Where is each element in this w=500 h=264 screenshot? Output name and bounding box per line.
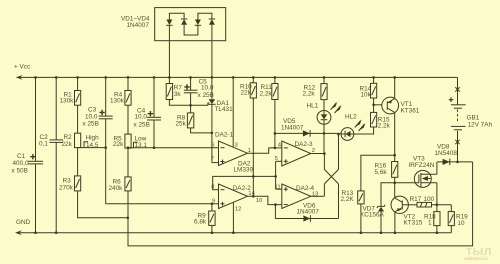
node dot VD8line-battery bbox=[456, 161, 459, 164]
svg-text:22k: 22k bbox=[241, 90, 252, 97]
svg-text:2,2k: 2,2k bbox=[260, 91, 273, 98]
wire VD6 riser from pin10 line bbox=[274, 205, 276, 219]
svg-text:2: 2 bbox=[312, 148, 315, 154]
node dot HL1-VD5line bbox=[323, 132, 326, 135]
pin 3 Vcc wire DA2-1 bbox=[232, 77, 234, 146]
svg-text:1N4007: 1N4007 bbox=[127, 22, 150, 29]
node dot D1col-Vcc bbox=[168, 76, 171, 79]
svg-text:7: 7 bbox=[211, 156, 214, 162]
svg-text:GND: GND bbox=[16, 219, 31, 226]
node dot R10-latchline bbox=[252, 175, 255, 178]
svg-text:R17: R17 bbox=[410, 196, 422, 203]
node dot R8line-TL431col bbox=[211, 132, 214, 135]
wire HL1 down to VD5 line bbox=[323, 124, 325, 153]
wire bridge top jumper D3-D4 bbox=[198, 12, 212, 15]
node dot High-C3 bbox=[104, 146, 107, 149]
svg-text:130k: 130k bbox=[60, 98, 75, 105]
node dot VD5line-crosscol bbox=[337, 133, 340, 136]
wire D4 output down to Vcc bus bbox=[211, 30, 213, 77]
node dot R11-pin4line bbox=[274, 147, 277, 150]
svg-text:x 25B: x 25B bbox=[198, 92, 214, 99]
node dot R11-Vcc bbox=[274, 76, 277, 79]
wire pin5 stub bbox=[276, 160, 282, 162]
resistor R11 bbox=[260, 77, 279, 99]
capacitor C5 bbox=[184, 77, 214, 105]
node dot C2-GND bbox=[55, 231, 58, 234]
node dot R11-VD5line bbox=[274, 132, 277, 135]
node dot R18-GND bbox=[436, 231, 439, 234]
svg-text:R2: R2 bbox=[64, 134, 73, 141]
node dot C3-Vcc bbox=[104, 76, 107, 79]
svg-text:High: High bbox=[86, 135, 100, 142]
resistor R1 bbox=[60, 77, 81, 105]
resistor R8 bbox=[176, 105, 194, 128]
diode VD4 bbox=[209, 14, 215, 30]
node dot R10-Vcc bbox=[252, 76, 255, 79]
resistor R15 bbox=[371, 112, 391, 129]
node dot R13-GND bbox=[360, 231, 363, 234]
node dot R14-R15-base bbox=[372, 104, 375, 107]
svg-text:10: 10 bbox=[256, 198, 263, 204]
node dot R9-GND bbox=[211, 231, 214, 234]
wire D4 column through TL431 down to pin7 corner bbox=[211, 77, 213, 96]
wire VT3 source down to sense node bbox=[436, 183, 438, 212]
svg-text:100: 100 bbox=[424, 196, 435, 203]
svg-text:1N5408: 1N5408 bbox=[435, 150, 458, 157]
node dot D4col-Vcc bbox=[211, 76, 214, 79]
svg-text:2,2K: 2,2K bbox=[341, 196, 355, 203]
resistor R19 bbox=[448, 205, 468, 233]
node dot source-R17-R18-R19 bbox=[436, 204, 439, 207]
svg-text:11: 11 bbox=[275, 184, 281, 190]
wire R12 to HL1 bbox=[323, 100, 325, 111]
pin 12 wire to GND bbox=[232, 202, 234, 232]
wire DA2-2 output to DA2-4 pin10 bbox=[248, 196, 282, 204]
node dot VT1emitter-Vcc bbox=[393, 76, 396, 79]
comparator DA2-3 bbox=[282, 141, 311, 166]
node dot C5-refnode bbox=[189, 104, 192, 107]
comparator DA2-2 bbox=[219, 184, 248, 209]
wire cross diagonal A bbox=[324, 169, 338, 184]
resistor R16 bbox=[375, 155, 398, 177]
wire R7 bottom to ref node bbox=[169, 100, 208, 106]
svg-text:radiostroi.ru: radiostroi.ru bbox=[464, 256, 488, 261]
resistor R17 bbox=[408, 196, 451, 207]
pin 8 wire up to latch line bbox=[213, 176, 276, 189]
wire R1 to R2 bbox=[77, 105, 79, 133]
svg-text:DA2-3: DA2-3 bbox=[295, 141, 314, 148]
wire gate line VD7 corner to VT3 gate bbox=[381, 183, 414, 206]
svg-text:25k: 25k bbox=[176, 120, 187, 127]
diode VD1 bbox=[166, 14, 172, 30]
wire R3 bottom to R6 column bbox=[78, 191, 128, 218]
svg-text:5,6k: 5,6k bbox=[375, 169, 388, 176]
svg-text:10,0: 10,0 bbox=[135, 114, 148, 121]
wire cross left column upper (DA2-3 out down) bbox=[323, 154, 325, 170]
svg-text:2,2k: 2,2k bbox=[303, 91, 316, 98]
svg-text:+ Vcc: + Vcc bbox=[14, 64, 31, 71]
resistor R14 bbox=[360, 77, 377, 98]
resistor R7 bbox=[166, 77, 182, 99]
svg-text:10,0: 10,0 bbox=[85, 114, 98, 121]
svg-text:1N4007: 1N4007 bbox=[297, 208, 320, 215]
svg-text:10: 10 bbox=[458, 220, 466, 227]
wire VT1 collector node to R13 top bbox=[361, 155, 395, 191]
svg-text:TL431: TL431 bbox=[215, 106, 234, 113]
wire base node to VT1 base bbox=[374, 104, 382, 106]
wire cross diagonal B bbox=[324, 169, 338, 184]
resistor R13 bbox=[341, 190, 365, 204]
node dot C1-Vcc bbox=[34, 76, 37, 79]
svg-text:6,8k: 6,8k bbox=[194, 218, 207, 225]
wire R10 column down to out14 line bbox=[252, 98, 254, 196]
wire R2 to R3 (High node) bbox=[77, 148, 79, 176]
svg-text:DA2-1: DA2-1 bbox=[215, 132, 234, 139]
wire High node to C3 column bbox=[78, 147, 106, 149]
wire bridge top jumper D1-D2 bbox=[169, 12, 184, 15]
node dot gate node bbox=[393, 182, 396, 185]
comparator DA2-1 bbox=[219, 141, 248, 166]
wire R18 to GND bbox=[436, 226, 438, 233]
svg-text:GB1: GB1 bbox=[467, 114, 480, 121]
resistor R10 bbox=[240, 77, 256, 98]
svg-text:14,5: 14,5 bbox=[86, 142, 99, 149]
diode VD2 bbox=[181, 14, 187, 30]
wire D1 output down to Vcc bus bbox=[168, 30, 170, 77]
diode VD8 bbox=[437, 159, 473, 166]
node dot pin10-VD6riser bbox=[274, 203, 277, 206]
resistor R4 bbox=[110, 77, 131, 105]
capacitor C1 bbox=[12, 77, 44, 232]
node dot VT2emitter-GND bbox=[394, 231, 397, 234]
diode VD6 bbox=[275, 215, 338, 222]
node dot VT1collector-R13 bbox=[393, 154, 396, 157]
node dot C2-Vcc bbox=[55, 76, 58, 79]
LED HL2 bbox=[341, 114, 365, 141]
svg-text:0,1: 0,1 bbox=[39, 141, 48, 148]
node dot VD7-GND bbox=[380, 231, 383, 234]
resistor R12 bbox=[303, 77, 328, 99]
node dot R1-Vcc bbox=[76, 76, 79, 79]
svg-text:R3: R3 bbox=[63, 177, 72, 184]
svg-text:12: 12 bbox=[235, 206, 242, 212]
svg-text:IRFZ24N: IRFZ24N bbox=[409, 162, 435, 169]
node dot DA2-3out-HL1col bbox=[323, 152, 326, 155]
svg-text:C1: C1 bbox=[17, 153, 26, 160]
svg-text:HL2: HL2 bbox=[345, 114, 357, 121]
node dot pin3-Vcc bbox=[232, 76, 235, 79]
capacitor C3 bbox=[83, 77, 113, 203]
wire latch line risers to pin5 and pin11 bbox=[275, 161, 277, 189]
wire R6 bottom to sense bottom line bbox=[128, 162, 473, 246]
battery GB1 bbox=[449, 77, 493, 161]
Vcc bus wire with left arrow bbox=[18, 76, 458, 78]
transistor VT2 KT315 (NPN) bbox=[391, 196, 423, 233]
svg-text:KC156A: KC156A bbox=[360, 212, 385, 219]
wire DA2-3 output to HL1 column bbox=[311, 153, 325, 155]
wire R13 bottom to GND bbox=[360, 204, 362, 233]
node dot R14-Vcc bbox=[372, 76, 375, 79]
svg-text:400,0: 400,0 bbox=[13, 160, 29, 167]
resistor R3 bbox=[59, 176, 81, 191]
node dot C1-GND bbox=[34, 231, 37, 234]
wire pin9 stub bbox=[212, 203, 219, 205]
capacitor C2 bbox=[39, 77, 63, 232]
op-amp DA1 TL431 bbox=[208, 97, 233, 113]
svg-text:KT315: KT315 bbox=[404, 220, 423, 227]
svg-text:HL1: HL1 bbox=[307, 103, 319, 110]
svg-text:x 25B: x 25B bbox=[134, 121, 150, 128]
wire Low node to DA2-1 pin6 bbox=[128, 147, 219, 149]
node dot latchline-riser bbox=[274, 175, 277, 178]
wire ref node step up to TL431 ref bbox=[208, 103, 209, 105]
resistor R2 bbox=[62, 133, 81, 148]
zener VD7 bbox=[360, 205, 385, 233]
transistor VT1 KT361 (PNP) bbox=[382, 77, 420, 155]
wire into DA2-1 pin7 bbox=[212, 162, 219, 164]
wire cross right column lower (to VD6) bbox=[338, 184, 340, 219]
node dot C5-Vcc bbox=[189, 76, 192, 79]
svg-text:KT361: KT361 bbox=[401, 107, 420, 114]
GND bus wire with left arrow bbox=[17, 232, 452, 234]
svg-text:13,1: 13,1 bbox=[135, 142, 148, 149]
node dot R10-out14 bbox=[252, 195, 255, 198]
diode VD3 bbox=[195, 14, 201, 30]
wire R4 to R5 bbox=[127, 105, 129, 134]
wire HL2 line to R15 corner bbox=[354, 127, 374, 134]
svg-text:12V 7Ah: 12V 7Ah bbox=[468, 121, 493, 128]
MOSFET VT3 IRFZ24N bbox=[409, 156, 437, 188]
svg-text:130k: 130k bbox=[110, 98, 125, 105]
svg-text:LM339: LM339 bbox=[234, 166, 254, 173]
svg-text:x 50B: x 50B bbox=[12, 168, 28, 175]
svg-text:1: 1 bbox=[428, 220, 432, 227]
wire DA2-1 output to pin4 line bbox=[248, 148, 282, 153]
wire C3 column to DA2-2 pin9 bbox=[106, 203, 212, 205]
wire cross right column upper (from HL2 line) bbox=[338, 134, 340, 169]
svg-text:240k: 240k bbox=[109, 185, 124, 192]
node dot Low-R5R6col bbox=[127, 146, 130, 149]
LED HL1 bbox=[307, 102, 342, 125]
svg-text:x 25B: x 25B bbox=[83, 121, 99, 128]
wire R16 bottom through gate node to VT2 collector bbox=[394, 177, 396, 196]
node dot R12-Vcc bbox=[323, 76, 326, 79]
capacitor C4 bbox=[134, 77, 162, 147]
svg-text:22k: 22k bbox=[113, 141, 124, 148]
node dot pin9-R9 bbox=[211, 203, 214, 206]
bridge box VD1-VD4 bbox=[155, 8, 226, 41]
wire R5 to R6 (Low node) bbox=[127, 148, 129, 177]
svg-text:2,2k: 2,2k bbox=[378, 123, 391, 130]
resistor R5 bbox=[113, 134, 131, 148]
wire R8 bottom to TL431 column bbox=[191, 128, 212, 133]
wire pin11 stub bbox=[276, 188, 282, 190]
wire bridge bottom jumper D2-D3 bbox=[184, 30, 198, 35]
wire DA2-4 output to cross column bbox=[311, 195, 325, 197]
node dot R3-R6col bbox=[127, 217, 130, 220]
wire R14 to base node bbox=[373, 98, 375, 112]
wire VT3 drain up to VD8 line bbox=[436, 162, 438, 174]
comparator DA2-4 bbox=[282, 184, 311, 209]
node dot R4-Vcc bbox=[127, 76, 130, 79]
diode VD5 bbox=[275, 130, 341, 137]
resistor R18 bbox=[424, 212, 440, 227]
svg-text:270k: 270k bbox=[59, 184, 74, 191]
Low test tick bbox=[134, 142, 138, 148]
svg-text:22k: 22k bbox=[62, 141, 73, 148]
resistor R6 bbox=[109, 177, 132, 192]
node dot C4-Vcc bbox=[153, 76, 156, 79]
High test tick bbox=[84, 142, 88, 148]
wire R11 column down to pin4 line bbox=[274, 100, 276, 148]
svg-text:10k: 10k bbox=[361, 92, 372, 99]
node dot Low-C4 bbox=[153, 146, 156, 149]
svg-text:1N4007: 1N4007 bbox=[281, 125, 304, 132]
svg-text:3k: 3k bbox=[174, 91, 182, 98]
resistor R9 bbox=[194, 204, 215, 233]
wire cross left column lower (to DA2-4 out) bbox=[323, 184, 325, 196]
node dot pin12-GND bbox=[232, 231, 235, 234]
